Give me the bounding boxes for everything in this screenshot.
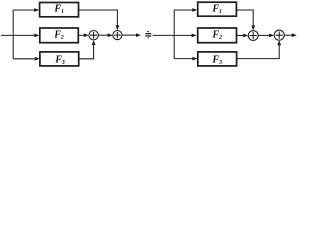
equivalence symbol between diagrams (145, 31, 151, 38)
arrowhead into F2 right (192, 34, 197, 38)
wire F1 over to sum1 right (236, 10, 253, 27)
svg-text:F1: F1 (53, 3, 64, 15)
wire bottom branch right (174, 58, 193, 60)
wire output right (284, 34, 293, 36)
label F2 left (53, 29, 64, 41)
svg-text:F1: F1 (211, 3, 222, 15)
arrowhead sum1 to sum2 right (269, 34, 274, 38)
wire bottom branch left (13, 58, 35, 60)
arrowhead up into sum1 left (92, 40, 96, 45)
arrowhead into F2 left (34, 34, 39, 38)
summing junction S1 left (89, 31, 98, 40)
arrowhead output right (292, 33, 297, 37)
arrowhead sum1 to sum2 left (108, 33, 113, 37)
arrowhead into sum1 left (84, 33, 89, 37)
wire top branch left (13, 9, 35, 11)
arrowhead output left (136, 33, 141, 37)
wire sum1 to sum2 left (98, 34, 110, 36)
arrowhead into F1 left (34, 8, 39, 12)
summing junction S2 right (274, 30, 284, 40)
arrowhead down into sum2 left (116, 25, 120, 30)
label F3 left (54, 54, 65, 66)
arrowhead down into sum1 right (251, 26, 255, 31)
svg-text:F3: F3 (54, 54, 65, 66)
svg-text:F2: F2 (53, 29, 64, 41)
wire F3 under to sum2 right (237, 43, 280, 58)
wire top branch right (174, 9, 192, 11)
label F3 right (211, 54, 222, 66)
arrowhead into sum1 right (243, 34, 248, 38)
svg-text:F3: F3 (211, 54, 222, 66)
wire sum1 to sum2 right (258, 34, 271, 36)
block F1 right (198, 2, 237, 16)
wire output left (122, 34, 138, 36)
arrowhead into F1 right (192, 8, 197, 12)
wire F3 under to sum1 left (79, 43, 94, 59)
block F1 left (40, 3, 79, 17)
wire F1 over to sum2 left (79, 10, 118, 27)
block F3 right (198, 52, 237, 66)
label F2 right (211, 29, 222, 41)
summing junction S2 left (113, 30, 122, 39)
arrowhead into F3 right (192, 57, 197, 61)
wire input right diagram (153, 34, 194, 36)
wire branch vertical left (12, 10, 14, 59)
block F2 left (40, 28, 79, 43)
arrowhead up into sum2 right (277, 40, 281, 45)
wire F2 to sum1 left (78, 34, 86, 36)
arrowhead into F3 left (35, 57, 40, 61)
block F2 right (198, 28, 237, 43)
wire input left diagram (1, 34, 35, 36)
label F1 left (53, 3, 64, 15)
svg-text:F2: F2 (211, 29, 222, 41)
wire branch vertical right (173, 10, 175, 59)
block F3 left (40, 52, 79, 66)
summing junction S1 right (248, 31, 258, 41)
wire F2 to sum1 right (237, 34, 246, 36)
label F1 right (211, 3, 222, 15)
